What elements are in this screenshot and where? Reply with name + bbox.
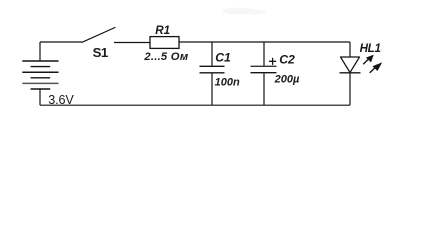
wire: top rail battery to switch bbox=[40, 41, 82, 43]
label C2 bbox=[279, 52, 295, 66]
wire: LED bottom lead bbox=[349, 73, 351, 105]
value label 2...5 Ом bbox=[143, 51, 188, 63]
svg-text:200µ: 200µ bbox=[274, 73, 300, 85]
capacitor C1 top lead bbox=[211, 42, 213, 66]
svg-text:C1: C1 bbox=[215, 50, 231, 64]
value label 100n bbox=[215, 77, 240, 89]
label 3.6V bbox=[48, 93, 74, 107]
battery plate short 2 bbox=[31, 77, 51, 79]
wire: LED top lead bbox=[349, 42, 351, 57]
svg-text:2...5 Ом: 2...5 Ом bbox=[143, 51, 188, 63]
capacitor C2 bottom lead bbox=[263, 73, 265, 105]
capacitor C2 top plate bbox=[251, 65, 277, 67]
svg-text:C2: C2 bbox=[279, 52, 295, 66]
LED HL1 cathode bar bbox=[340, 72, 361, 74]
capacitor C2 top lead bbox=[263, 42, 265, 66]
polarity plus sign of C2 bbox=[269, 58, 276, 65]
LED HL1 triangle bbox=[341, 57, 360, 73]
LED light arrow lower bbox=[370, 63, 382, 73]
switch S1 blade bbox=[82, 28, 115, 43]
svg-text:S1: S1 bbox=[93, 45, 108, 60]
svg-text:HL1: HL1 bbox=[360, 42, 381, 55]
battery plate short 1 bbox=[31, 66, 51, 68]
value label 200µ bbox=[274, 73, 300, 85]
wire: bottom rail bbox=[40, 104, 350, 106]
label S1 bbox=[93, 45, 108, 60]
faint smudge artifact top center bbox=[222, 8, 266, 15]
battery plate long 3 bbox=[22, 82, 58, 84]
label R1 bbox=[155, 24, 170, 37]
LED light arrow upper bbox=[363, 55, 373, 64]
capacitor C1 top plate bbox=[200, 65, 225, 67]
battery plate long 2 bbox=[22, 71, 58, 73]
svg-text:100n: 100n bbox=[215, 77, 240, 89]
capacitor C2 bottom plate bbox=[251, 72, 277, 74]
battery GB1 bottom lead bbox=[39, 89, 41, 105]
capacitor C1 bottom lead bbox=[211, 73, 213, 105]
svg-text:R1: R1 bbox=[155, 24, 170, 37]
battery plate short 3 bbox=[31, 88, 51, 90]
battery GB1 top lead bbox=[39, 42, 41, 61]
capacitor C1 bottom plate bbox=[200, 72, 225, 74]
resistor R1 bbox=[150, 37, 179, 49]
wire: switch right contact to resistor bbox=[114, 42, 150, 44]
battery plate long 1 bbox=[22, 60, 58, 62]
label HL1 bbox=[360, 42, 381, 55]
label C1 bbox=[215, 50, 231, 64]
wire: top rail resistor to LED corner bbox=[179, 41, 350, 43]
